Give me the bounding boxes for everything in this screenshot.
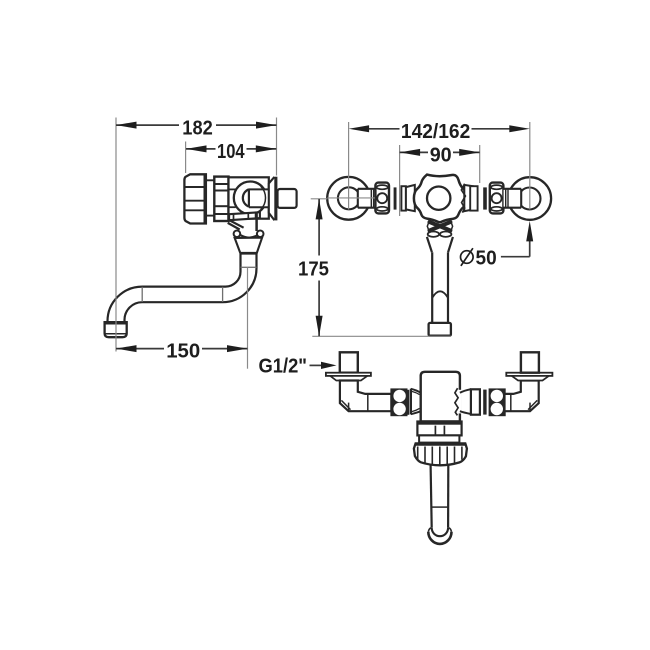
ribbed swivel ring (top view) (414, 443, 467, 465)
pipe step line right (510, 394, 512, 411)
diameter 50 symbol (461, 248, 474, 266)
swivel collar X (front view) (430, 222, 451, 231)
wall stub pipe (side view) (278, 189, 297, 208)
left washer ticks (371, 190, 373, 207)
spout U end inner (432, 528, 448, 537)
extension line x=348.6 (left flange axis) (348, 122, 350, 210)
spout inner wall (left/inner path) (108, 254, 241, 323)
collar ellipse left (428, 232, 439, 237)
svg-text:104: 104 (217, 140, 245, 163)
outlet block (front view) (429, 323, 451, 336)
nozzle aerator line (105, 333, 126, 335)
extension line x=116 (spout axis) (115, 118, 117, 352)
right escutcheon bar (506, 373, 552, 376)
spout neck base tick (240, 252, 257, 254)
centerline through left flange (327, 197, 375, 199)
extension line y=336.3 (outlet bottom) (312, 335, 451, 337)
swivel pivot left (234, 231, 241, 238)
dimension 175 arrows (316, 199, 323, 336)
dimension 90 line (400, 151, 480, 153)
inner D seat (side view) (243, 189, 249, 208)
ring top thick edge (415, 443, 466, 445)
right flange inner circle (519, 188, 541, 210)
wall escutcheon (side view) (269, 177, 275, 220)
spout tube tick (241, 266, 257, 268)
outlet nozzle (side view) (105, 322, 127, 337)
knob flute lines (185, 187, 205, 210)
left wall flange outer circle (327, 177, 370, 220)
knob face bar (204, 174, 207, 223)
dimension 104 arrows (186, 145, 276, 152)
svg-text:50: 50 (476, 247, 497, 270)
left venturi cone (top view) (411, 389, 421, 414)
spout neck taper (front view) (427, 237, 453, 252)
right union dark bar (483, 390, 486, 415)
left cone connector (406, 185, 415, 211)
extension line x=185.6 (knob face) (185, 142, 187, 174)
tube division line (432, 506, 448, 508)
adjustable break zigzag (top view) (455, 388, 458, 415)
body inlet lines left of ring (229, 189, 236, 207)
left inlet pipe band (358, 189, 376, 208)
swivel fork right bar (255, 212, 258, 231)
knob (fluted handle, side view) (184, 174, 206, 223)
right elbow inner chamfer line (528, 400, 537, 409)
dimension 150 arrows (116, 345, 248, 352)
svg-text:175: 175 (298, 258, 329, 281)
spout pipe tick right (222, 287, 224, 302)
left nut center boss (377, 193, 387, 203)
dimension 90 arrows (400, 149, 480, 156)
escutcheon face bar (274, 177, 277, 221)
extension line x=479.7 (90 right) (479, 145, 481, 183)
left nut top facet (377, 185, 388, 189)
union nut band (top view) (417, 422, 461, 436)
G1/2 arrow (321, 362, 337, 369)
ring right arc over band (261, 186, 266, 209)
dimension 175 line (318, 199, 320, 336)
dimension 142/162 line (369, 128, 510, 130)
left venturi inner curves (412, 391, 426, 411)
svg-text:142/162: 142/162 (401, 120, 470, 143)
dimension 104 line (186, 148, 276, 150)
union nut division lines (435, 426, 444, 435)
collar side wings (427, 222, 452, 231)
extension line x=247.5 (drop tube axis) (247, 267, 249, 368)
collar ellipse right (440, 232, 451, 237)
left hex nut (front view) (375, 183, 389, 214)
pipe band through ring (249, 189, 269, 207)
bonnet rib lines (215, 184, 228, 214)
svg-text:182: 182 (182, 116, 213, 139)
spout neck taper (side view) (235, 238, 262, 254)
spout drop tube (front view) (432, 252, 448, 323)
left nut bottom facet (377, 207, 388, 211)
left nut facet circle lower (393, 403, 405, 415)
left union dark bar (394, 187, 397, 209)
left union white bar (401, 186, 406, 210)
elbow inner vertical (348, 403, 350, 411)
left union bar (407, 390, 409, 415)
right union white band (471, 389, 480, 414)
central body (top view) (421, 372, 460, 422)
body edge white-out for break (458, 390, 461, 414)
right wall flange outer circle (509, 177, 552, 220)
left cone bar (410, 389, 412, 415)
left wall stub (top view) (340, 352, 358, 372)
right union white bar (470, 186, 477, 210)
left hex nut (top view) (392, 390, 407, 416)
cross handle body (front view) (414, 175, 466, 223)
extension line y=198.8 (inlet axis) (311, 198, 328, 200)
U step lines (428, 528, 451, 532)
union nut dark top band (417, 422, 461, 425)
spout U end outer (428, 532, 451, 544)
swivel ring (outer, side view) (234, 182, 267, 215)
valve body (side view) (229, 177, 269, 218)
bonnet (ribbed nut, side view) (214, 177, 228, 221)
nozzle top band (105, 323, 126, 325)
left escutcheon bar (326, 373, 371, 376)
left nut facet circle upper (393, 390, 405, 402)
ring ribs (418, 447, 462, 465)
diameter 50 leader (501, 234, 530, 257)
pipe step line left (367, 394, 369, 411)
extension line x=399.6 (90 left) (399, 145, 401, 216)
diameter 50 arrow (526, 221, 533, 242)
right union dark bar (483, 187, 487, 209)
left elbow and pipe (340, 381, 392, 412)
spout tube (top view) (431, 465, 449, 527)
spout outer wall (right/outer path) (125, 254, 257, 323)
svg-text:150: 150 (166, 340, 200, 363)
right venturi cone (top view) (460, 389, 471, 414)
swivel pivot right (257, 231, 264, 238)
swivel band ticks (234, 213, 256, 220)
svg-text:G1/2": G1/2" (259, 354, 308, 377)
handle center circle (427, 187, 450, 210)
right hex nut (top view) (490, 390, 505, 416)
right hex nut (front view) (490, 183, 504, 214)
dimension 182 arrows (116, 122, 277, 129)
left escutcheon cone (330, 376, 367, 381)
swivel smile arc (240, 235, 258, 238)
right inlet pipe band (504, 189, 522, 208)
dimension 142/162 arrows (349, 125, 530, 132)
dimension 182 line (116, 124, 277, 126)
left flange inner circle (338, 187, 360, 209)
extension line x=529.8 (right flange axis) (529, 122, 531, 210)
spout swivel band (tilted nut, side view) (229, 212, 260, 220)
adjustable break zigzag (front view) (461, 184, 465, 213)
spout pipe tick left (141, 287, 143, 302)
right elbow inner vertical (529, 403, 531, 411)
svg-text:90: 90 (430, 144, 452, 167)
right escutcheon cone (512, 376, 549, 381)
right washer ticks (506, 190, 508, 207)
right nut top facet (491, 185, 502, 189)
right nut center boss (492, 193, 502, 203)
knob-to-bonnet connector (206, 180, 214, 215)
swivel fork left slant (228, 220, 244, 230)
extension line x=276.5 (wall face) (276, 118, 278, 176)
union nut lower band (419, 435, 459, 442)
elbow inner chamfer line (341, 400, 350, 409)
right elbow and pipe (505, 381, 539, 412)
right nut facet circle upper (491, 390, 503, 402)
right nut bottom facet (491, 207, 502, 211)
G1/2 leader line (310, 364, 322, 366)
right cone connector (464, 185, 473, 211)
tube joint arc (432, 291, 448, 298)
right nut facet circle lower (491, 403, 503, 415)
dimension 150 line (116, 348, 248, 350)
right wall stub (top view) (521, 352, 539, 372)
